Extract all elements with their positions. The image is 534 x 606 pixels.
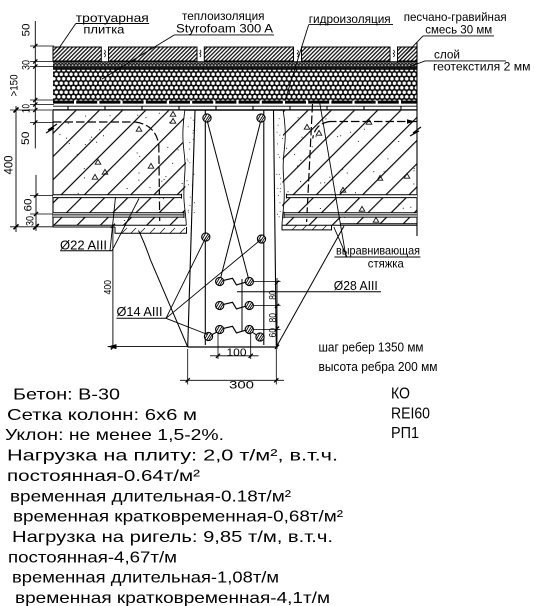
label: paving tiles [56,11,149,53]
svg-text:10: 10 [21,104,33,113]
concrete speckle texture [59,113,182,221]
100 dimension [210,333,259,359]
left stirrup bar line [204,111,206,345]
rebar mid-right bar section [257,235,265,243]
label Ø14 AIII [117,238,262,335]
right slab panel (hatched concrete) [282,42,417,236]
rebar bundle bar r3c1 [216,325,224,333]
rebar mid-left bar section [202,233,210,241]
svg-text:60: 60 [23,199,35,212]
right haunch [276,226,344,347]
paving tiles (тротуарная плитка) row [53,47,417,61]
sand-gravel bed 30mm [53,62,417,67]
aggregate triangles [95,159,101,164]
left outer 400 dimension line [14,106,19,232]
right 80/80/60 dimension chain [254,278,281,349]
leveling screed thin line [53,105,417,107]
300 dimension [180,349,284,391]
svg-text:400: 400 [102,280,114,295]
left slab panel (hatched concrete) [53,111,187,227]
bottom extension line with arrow [108,346,189,348]
svg-text:временная кратковременная-4,1т: временная кратковременная-4,1т/м [15,590,330,606]
svg-text:80: 80 [268,290,279,300]
svg-text:Ø28 AIII: Ø28 AIII [334,278,378,293]
svg-text:постоянная-0.64т/м²: постоянная-0.64т/м² [7,468,201,485]
lower bar band right [284,212,417,218]
rebar bundle bar r1c2 [245,277,253,285]
svg-text:постоянная-4,67т/м: постоянная-4,67т/м [8,549,177,566]
rib 400 dimension [102,224,115,350]
rib left face [188,111,195,347]
step (опорная площадка) under left slab [115,227,187,233]
svg-text:временная кратковременная-0,68: временная кратковременная-0,68т/м² [13,509,344,526]
left haunch [139,231,188,348]
svg-text:Ø14 AIII: Ø14 AIII [117,304,163,319]
svg-text:геотекстиля 2 мм: геотекстиля 2 мм [433,60,531,74]
geotextile layer 2mm [53,67,417,69]
svg-text:Ø22 AIII: Ø22 AIII [60,237,107,252]
rebar bundle bar r2c2 [245,301,253,309]
svg-text:30: 30 [21,60,33,70]
dashed bent-up bar, left panel [53,121,135,123]
vertical link line in bundle [241,279,243,331]
svg-text:100: 100 [227,347,247,359]
svg-text:стяжка: стяжка [368,257,404,271]
svg-text:Уклон: не менее 1,5-2%.: Уклон: не менее 1,5-2%. [5,427,224,444]
break mark on right slab edge [410,127,421,136]
svg-text:>150: >150 [9,75,21,97]
horizontal rebar Ø22: upper bar band left [53,194,182,199]
svg-text:30: 30 [25,216,37,226]
rebar corner-right bar section [256,333,264,341]
step under right slab [282,225,332,230]
svg-text:Нагрузка на плиту: 2,0 т/м², в: Нагрузка на плиту: 2,0 т/м², в.т.ч. [7,448,338,465]
label Ø22 AIII [60,197,139,252]
svg-text:300: 300 [229,379,254,391]
svg-text:80: 80 [268,313,279,323]
svg-text:60: 60 [268,328,279,338]
waterproofing membrane (thick black, long dashes) [53,101,417,104]
label: waterproofing [285,12,393,101]
label: geotextile layer [409,47,531,73]
rebar bundle bar r1c1 [216,277,224,285]
svg-text:смесь 30 мм: смесь 30 мм [425,22,492,36]
svg-text:400: 400 [4,156,16,175]
links bundle to corner bars [209,331,261,338]
svg-text:Нагрузка на ригель: 9,85 т/м,: Нагрузка на ригель: 9,85 т/м, в.т.ч. [12,529,333,546]
svg-text:Бетон: В-30: Бетон: В-30 [13,387,120,404]
svg-text:шаг ребер 1350 мм: шаг ребер 1350 мм [319,340,424,355]
label: sand-gravel mix [397,10,507,63]
svg-text:плитка: плитка [83,23,124,37]
svg-text:50: 50 [20,132,32,146]
svg-text:Styrofoam 300 A: Styrofoam 300 A [176,21,273,35]
svg-text:КО: КО [391,386,410,403]
svg-text:Сетка колонн: 6х6 м: Сетка колонн: 6х6 м [7,407,197,424]
slab top line [53,109,417,111]
svg-text:50: 50 [21,24,33,37]
slab soffit double line left [53,225,186,227]
svg-text:временная длительная-0.18т/м²: временная длительная-0.18т/м² [10,488,292,505]
rebar top-right bar section [257,114,265,122]
rebar top-left bar section [203,114,211,122]
svg-text:REI60: REI60 [391,405,430,422]
rebar bundle bar r3c2 [245,325,253,333]
right stirrup bar line [263,111,265,345]
label Ø28 AIII with leader [237,278,381,293]
styrofoam insulation board [53,69,417,100]
svg-text:временная длительная-1,08т/м: временная длительная-1,08т/м [12,570,279,587]
rib right face [274,111,277,347]
rib bottom edge [188,346,277,348]
svg-text:РП1: РП1 [391,425,419,442]
dashed bent-up bar, right panel [330,121,417,123]
extension lines left [10,46,54,227]
crossed bent bar lines [207,120,249,282]
break mark on left slab edge [46,124,57,133]
label: leveling screed [320,102,421,270]
rebar bundle bar r2c1 [216,301,224,309]
upper bar band right [287,194,418,199]
slab soffit double line right [282,224,417,226]
left inner dimension chain line [33,21,39,231]
lower bar band left (pair) [53,212,184,218]
label: thermal insulation [102,9,274,79]
svg-text:высота ребра 200 мм: высота ребра 200 мм [319,359,438,374]
svg-text:гидроизоляция: гидроизоляция [309,12,391,26]
rebar corner-left bar section [204,332,212,340]
